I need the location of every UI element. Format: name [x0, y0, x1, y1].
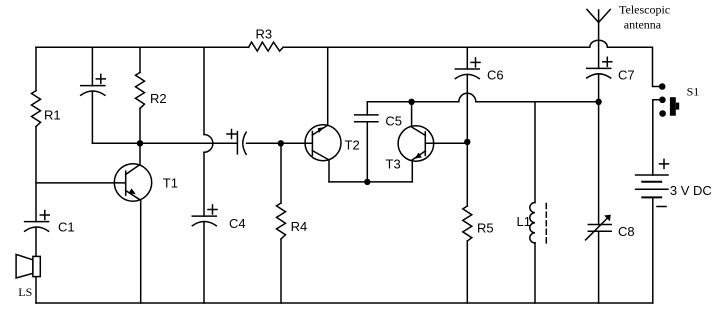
capacitor C3 coupling (unlabeled)	[227, 130, 312, 155]
svg-text:C5: C5	[385, 114, 402, 129]
svg-text:R3: R3	[256, 27, 273, 42]
svg-text:C7: C7	[618, 68, 635, 83]
wire hop over antenna	[590, 40, 608, 47]
transistor T3	[386, 102, 434, 182]
wire bottom rail	[36, 302, 653, 304]
svg-text:L1: L1	[517, 214, 531, 229]
svg-text:LS: LS	[18, 285, 32, 299]
svg-text:Telescopic: Telescopic	[619, 2, 670, 16]
wire top rail to switch	[607, 47, 659, 86]
node junction T3 base	[464, 139, 470, 145]
loudspeaker LS	[16, 254, 40, 299]
svg-text:C8: C8	[618, 224, 635, 239]
inductor core dashed	[545, 204, 547, 245]
capacitor C5	[355, 102, 402, 182]
transistor T1	[114, 143, 178, 303]
inductor L1	[517, 102, 536, 303]
capacitor C7	[587, 57, 635, 224]
svg-text:C6: C6	[487, 68, 504, 83]
node junction C7 bottom	[595, 99, 601, 105]
svg-text:R5: R5	[477, 220, 494, 235]
wire T3 base to R5 column	[425, 142, 467, 144]
svg-text:S1: S1	[687, 85, 700, 99]
capacitor C4	[192, 205, 245, 303]
wire node line y143	[92, 142, 237, 144]
wire node line y102	[367, 101, 459, 103]
node junction C5 bottom	[364, 179, 370, 185]
node junction T3 collector	[408, 99, 414, 105]
battery 3V	[636, 159, 712, 206]
capacitor C6	[455, 47, 503, 206]
wire T1 base line	[36, 182, 126, 184]
node junction R2/T1	[137, 140, 143, 146]
svg-text:R4: R4	[291, 219, 308, 234]
wire hop over C6/R5 column	[459, 93, 476, 102]
resistor R2	[136, 47, 167, 143]
resistor R3	[249, 42, 284, 51]
svg-text:3 V DC: 3 V DC	[670, 183, 712, 198]
wire battery to bottom rail	[652, 197, 654, 303]
svg-text:T2: T2	[345, 138, 360, 153]
telescopic antenna	[587, 2, 670, 68]
switch S1	[653, 83, 699, 175]
svg-text:C1: C1	[58, 220, 75, 235]
svg-text:R1: R1	[44, 107, 61, 122]
capacitor C1	[25, 211, 75, 235]
resistor R1	[32, 91, 41, 127]
svg-text:C4: C4	[229, 216, 246, 231]
resistor R4	[277, 143, 308, 303]
variable capacitor C8	[586, 215, 635, 303]
wire T2 emitter line	[329, 181, 412, 183]
transistor T2	[305, 47, 360, 182]
svg-text:antenna: antenna	[624, 17, 662, 31]
resistor R5	[463, 206, 494, 303]
capacitor C2 (unlabeled)	[81, 47, 106, 143]
node junction T2 base / R4	[278, 140, 284, 146]
wire top rail right section	[283, 46, 590, 48]
wire hop column C4	[204, 47, 213, 216]
wire top rail left section	[36, 46, 249, 48]
wire R1 to C1	[35, 127, 37, 222]
svg-text:R2: R2	[150, 91, 167, 106]
wire C1 to LS	[35, 228, 37, 303]
svg-text:T3: T3	[386, 157, 401, 172]
svg-text:T1: T1	[163, 176, 178, 191]
wire left column upper	[35, 47, 37, 90]
